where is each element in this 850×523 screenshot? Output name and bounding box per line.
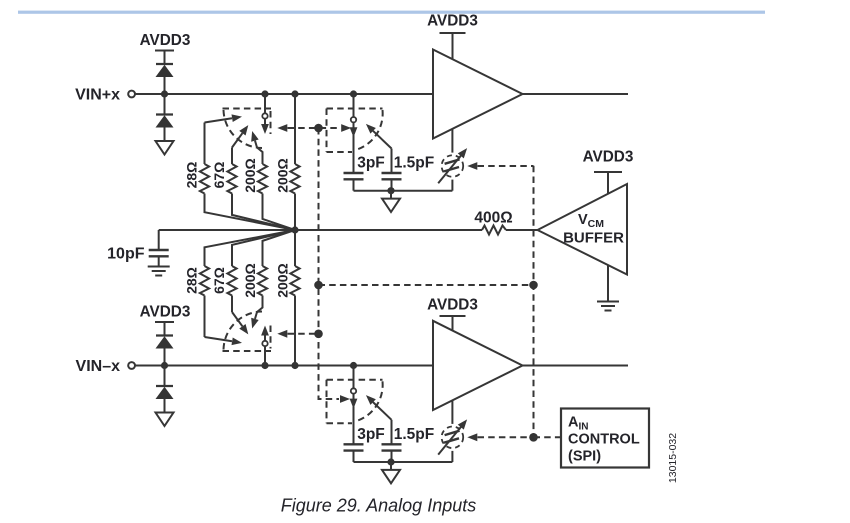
junction VIN+x / diodes: [161, 90, 168, 97]
svg-text:3pF: 3pF: [357, 155, 385, 172]
power tap AVDD3 (top ESD): [155, 51, 174, 65]
svg-text:VIN+x: VIN+x: [75, 87, 120, 104]
svg-text:200Ω: 200Ω: [275, 263, 291, 298]
resistor 28ohm (bottom): [200, 230, 295, 337]
ground arrow (top filter): [382, 191, 400, 212]
junction bottom wire / rotary pole: [261, 362, 268, 369]
svg-text:28Ω: 28Ω: [184, 267, 200, 294]
ground (bottom ESD): [156, 413, 174, 427]
rotary switch S3 (bottom attenuation select): [205, 312, 272, 366]
capacitor 3pF (top): [344, 173, 364, 191]
svg-text:VIN–x: VIN–x: [76, 358, 121, 375]
wire caps common (top): [354, 190, 453, 192]
resistor 400ohm: [482, 226, 506, 235]
svg-text:67Ω: 67Ω: [211, 267, 227, 294]
svg-text:10pF: 10pF: [107, 246, 145, 263]
junction control bus (AIN): [529, 433, 538, 442]
filter switch S4 (bottom): [327, 366, 392, 445]
diode D3 (VIN-x to AVDD3): [156, 336, 174, 366]
earth ground (10pF): [148, 267, 170, 276]
resistor 67ohm (bottom): [227, 230, 295, 312]
junction control bus center left: [314, 281, 323, 290]
junction top wire / rotary pole: [261, 90, 268, 97]
resistor 200ohm B (top): [290, 94, 299, 230]
capacitor 1.5pF (top): [382, 173, 402, 191]
wire VIN+x input: [135, 93, 433, 95]
svg-text:1.5pF: 1.5pF: [394, 426, 434, 443]
svg-text:28Ω: 28Ω: [184, 162, 200, 189]
svg-text:1.5pF: 1.5pF: [394, 155, 434, 172]
node summing center: [291, 226, 298, 233]
svg-text:13015-032: 13015-032: [667, 433, 679, 483]
resistor 200ohm B (bottom): [290, 230, 299, 366]
control arrow to S1/S2 (top): [277, 124, 351, 132]
ground (top ESD): [156, 141, 174, 155]
junction top wire / filter switch: [350, 90, 357, 97]
junction bottom wire / 200ohm: [291, 362, 298, 369]
VCM buffer U1: [538, 184, 628, 275]
power tap AVDD3 (A2): [440, 316, 466, 330]
svg-text:200Ω: 200Ω: [275, 158, 291, 193]
filter switch S2 (top): [327, 94, 392, 173]
terminal VIN-x: [128, 362, 135, 369]
resistor 200ohm A (top): [257, 148, 295, 231]
ground arrow (bottom filter): [382, 462, 400, 483]
wire VIN-x input: [135, 365, 433, 367]
capacitor 1.5pF (bottom): [382, 444, 402, 462]
wire output (bottom): [523, 365, 629, 367]
capacitor 3pF (bottom): [344, 444, 364, 462]
junction control bus (top left): [314, 124, 323, 133]
svg-text:67Ω: 67Ω: [211, 162, 227, 189]
control bus horizontal center: [319, 284, 534, 286]
diode D2 (ground to VIN+x): [156, 94, 174, 141]
wire output (top): [523, 93, 629, 95]
svg-text:200Ω: 200Ω: [242, 158, 258, 193]
variable capacitor (top): [438, 129, 470, 191]
wire center node: [159, 229, 482, 231]
junction caps ground (bottom): [387, 458, 394, 465]
control bus vertical right: [533, 166, 535, 438]
svg-text:200Ω: 200Ω: [242, 263, 258, 298]
box AIN CONTROL (SPI): [561, 409, 649, 468]
svg-text:AVDD3: AVDD3: [427, 297, 478, 314]
svg-text:AVDD3: AVDD3: [427, 13, 478, 30]
capacitor 10pF: [149, 230, 169, 267]
op amp A1 (top buffer): [433, 50, 523, 139]
wire control bus to AIN box: [534, 436, 562, 438]
junction VIN-x / diodes: [161, 362, 168, 369]
diode D4 (ground to VIN-x): [156, 366, 174, 413]
resistor 28ohm (top): [200, 123, 295, 231]
variable capacitor (bottom): [438, 400, 470, 462]
wire caps common (bottom): [354, 461, 453, 463]
power tap AVDD3 (VCM buffer): [594, 172, 622, 194]
op amp A2 (bottom buffer): [433, 321, 523, 410]
svg-text:3pF: 3pF: [357, 426, 385, 443]
svg-text:AVDD3: AVDD3: [140, 304, 191, 321]
control arrow to varactor (top): [467, 162, 533, 170]
resistor 67ohm (top): [227, 148, 295, 231]
resistor 200ohm A (bottom): [257, 230, 295, 312]
svg-text:CONTROL: CONTROL: [568, 432, 640, 448]
svg-text:AVDD3: AVDD3: [583, 149, 634, 166]
rotary switch S1 (top attenuation select): [205, 94, 272, 148]
earth ground (VCM buffer): [597, 265, 619, 311]
svg-text:Figure 29. Analog Inputs: Figure 29. Analog Inputs: [281, 496, 476, 516]
svg-text:400Ω: 400Ω: [474, 210, 512, 227]
control arrow to S4 (bottom filter): [340, 395, 350, 403]
control arrow to varactor (bottom): [467, 433, 533, 441]
terminal VIN+x: [128, 91, 135, 98]
junction bottom wire / filter switch: [350, 362, 357, 369]
control bus vertical left: [319, 128, 340, 399]
svg-text:AVDD3: AVDD3: [140, 32, 191, 49]
control arrow to S3 (bottom rotary): [277, 330, 318, 338]
power tap AVDD3 (bottom ESD): [155, 322, 174, 336]
junction top wire / 200ohm: [291, 90, 298, 97]
junction caps ground (top): [387, 187, 394, 194]
svg-text:(SPI): (SPI): [568, 449, 601, 465]
power tap AVDD3 (A1): [440, 33, 466, 59]
junction control bus center right: [529, 281, 538, 290]
junction control bus (bottom left): [314, 330, 323, 339]
diode D1 (VIN+x to AVDD3): [156, 64, 174, 94]
svg-text:BUFFER: BUFFER: [563, 230, 624, 247]
wire 400ohm to VCM buffer: [506, 229, 538, 231]
